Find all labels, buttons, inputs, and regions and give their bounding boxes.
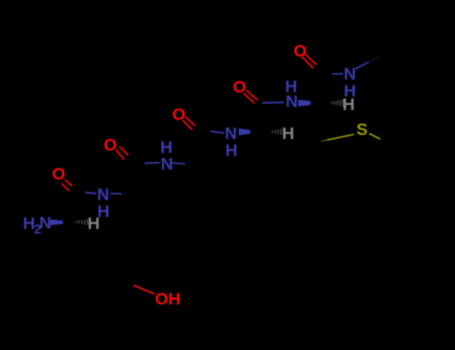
svg-text:O: O: [233, 78, 246, 97]
carbonyl C4=O4 double bond (red): [243, 90, 257, 103]
carbonyl C2=O2 double bond (red): [116, 146, 128, 159]
svg-text:H: H: [282, 124, 294, 143]
svg-text:N: N: [286, 92, 298, 111]
carbonyl C5=O5 double bond (top right, red): [302, 54, 317, 68]
wire CH2 dark tail: [321, 140, 327, 141]
svg-text:H: H: [343, 95, 355, 114]
svg-text:O: O: [104, 136, 117, 155]
carbonyl C3=O3 double bond (red): [183, 117, 196, 130]
wire CH3 dark half: [369, 56, 381, 62]
svg-text:S: S: [356, 120, 367, 139]
svg-text:OH: OH: [155, 289, 181, 308]
hash wedge Phe alpha C to stereo H (gray): [272, 128, 283, 135]
hash wedge Tyr alpha C to stereo H (gray): [76, 219, 87, 225]
svg-text:H: H: [225, 141, 237, 160]
wire N1-CH2 glycine (blue half): [110, 193, 121, 195]
wire S-CH3 (olive): [369, 134, 380, 140]
wire C5-N5 (amide bond, blue half): [332, 73, 343, 75]
svg-text:O: O: [293, 42, 306, 61]
carbonyl C1=O1 double bond (red): [62, 180, 72, 191]
svg-text:N: N: [161, 154, 173, 173]
wire C4-N4 (amide bond, blue half): [262, 101, 284, 104]
svg-text:O: O: [52, 165, 65, 184]
svg-text:H: H: [87, 214, 99, 233]
wire C2-N2 (amide bond, blue half): [145, 162, 160, 165]
wire N2-CH2 glycine (blue half): [172, 162, 185, 165]
wedge bond H2N to Tyr alpha carbon (blue): [50, 219, 63, 225]
wire phenol C-OH bond (red): [134, 285, 155, 294]
wire N5-CH3 (N-methyl bond, blue): [355, 62, 368, 69]
wedge bond N4 to Met alpha carbon (blue): [298, 100, 311, 107]
hash wedge Met alpha C to stereo H (gray): [332, 99, 343, 107]
wedge bond N3 to Phe alpha carbon (blue): [239, 128, 251, 135]
svg-text:O: O: [172, 105, 185, 124]
wire C1-N1 (amide bond, blue half): [85, 192, 96, 195]
wire CH2-S (thioether, olive): [327, 134, 354, 140]
svg-text:N: N: [39, 214, 51, 233]
wire C3-N3 (amide bond, blue half): [211, 131, 224, 133]
